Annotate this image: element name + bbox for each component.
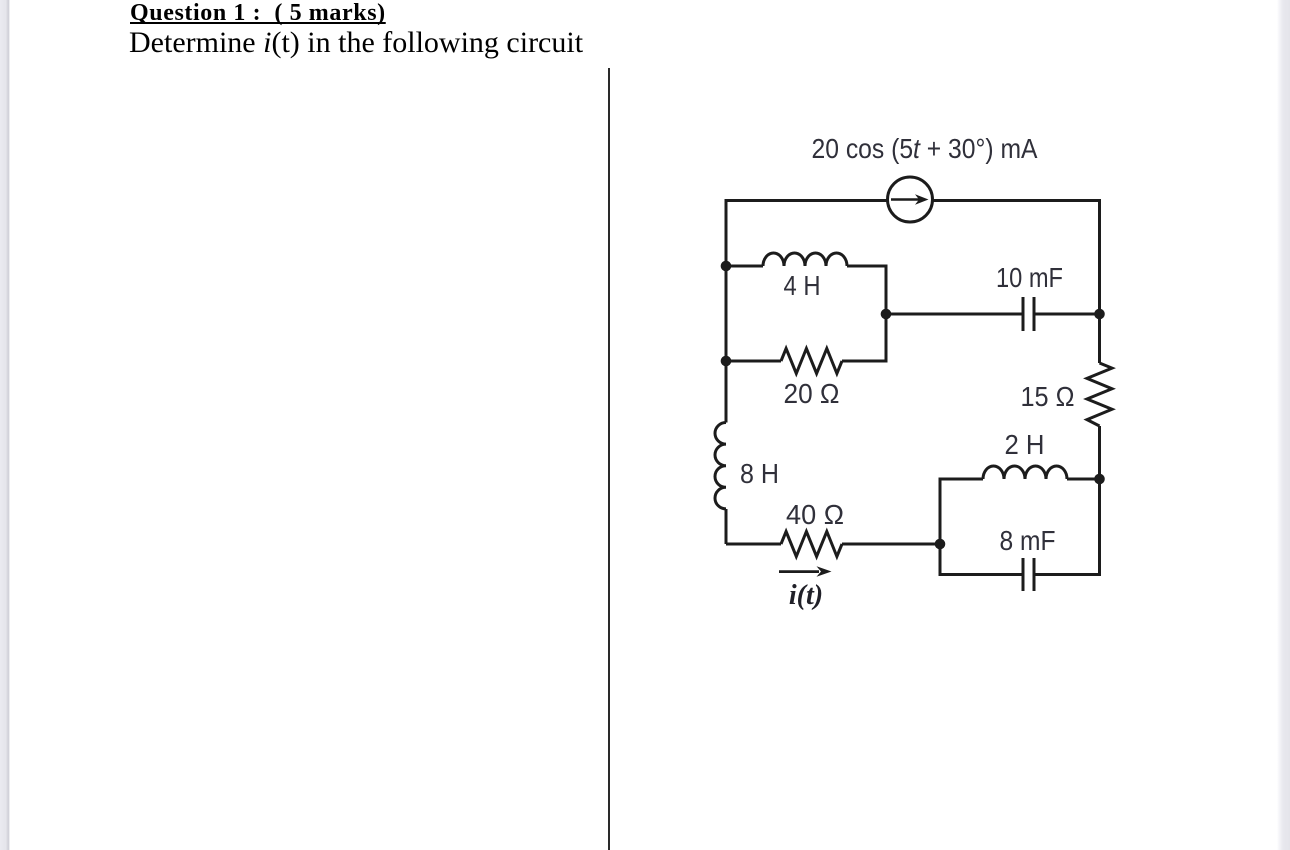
svg-text:15 Ω: 15 Ω [1021, 381, 1075, 412]
wire top rail right of source [933, 199, 1100, 202]
inductor L2 2H [983, 466, 1067, 479]
node dot B [721, 356, 732, 367]
resistor R1 20ohm zigzag [781, 349, 842, 374]
current source arrow [891, 198, 919, 201]
wire small box left side [939, 478, 942, 577]
wire bottom rail left stub [726, 543, 781, 546]
wire left rail upper [725, 199, 728, 423]
node dot D [1094, 309, 1105, 320]
wire 4H branch right stub [847, 265, 886, 268]
wire capacitor row left [886, 313, 1023, 316]
svg-text:4 H: 4 H [784, 270, 821, 301]
svg-text:10 mF: 10 mF [996, 262, 1063, 293]
inductor L3 8H vertical [715, 423, 726, 509]
node dot E [1094, 474, 1105, 485]
wire 4H branch left stub [726, 265, 763, 268]
wire left rail lower [725, 509, 728, 544]
current arrow i(t) [779, 570, 819, 573]
svg-text:20 cos (5t + 30°) mA: 20 cos (5t + 30°) mA [812, 133, 1039, 164]
svg-text:8 H: 8 H [740, 458, 779, 489]
wire inner box right side [885, 265, 888, 363]
left page-edge strip [0, 0, 10, 850]
wire 20ohm branch left stub [726, 360, 781, 363]
wire small box bottom right [1034, 573, 1101, 576]
wire right rail upper [1098, 199, 1101, 363]
heading line 2 [129, 26, 583, 60]
capacitor C1 10mF plates [1023, 297, 1034, 331]
node dot F [935, 539, 946, 550]
heading line 1 [130, 0, 386, 27]
capacitor C2 8mF plates [1023, 558, 1034, 591]
wire 2H stub left [940, 478, 983, 481]
svg-text:2 H: 2 H [1005, 429, 1045, 460]
wire capacitor row right [1034, 313, 1100, 316]
current source I1 circle [888, 177, 933, 222]
wire right rail lower [1098, 426, 1101, 575]
svg-text:i(t): i(t) [789, 580, 823, 611]
resistor R2 15ohm zigzag vertical [1087, 363, 1112, 426]
wire bottom rail right stub [842, 543, 940, 546]
inductor L1 4H [763, 253, 847, 266]
wire 20ohm branch right stub [842, 360, 886, 363]
wire 2H stub right [1067, 478, 1100, 481]
right page-edge strip [1277, 0, 1290, 850]
svg-text:20 Ω: 20 Ω [784, 378, 840, 409]
svg-text:8 mF: 8 mF [1000, 525, 1056, 556]
resistor R3 40ohm zigzag [781, 532, 842, 557]
vertical divider [608, 68, 610, 850]
wire top rail left of source [726, 199, 887, 202]
wire small box bottom left [940, 573, 1023, 576]
svg-text:40 Ω: 40 Ω [786, 499, 844, 530]
node dot A [721, 261, 732, 272]
node dot C [881, 309, 892, 320]
